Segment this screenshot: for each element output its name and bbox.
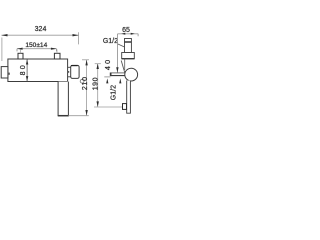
dimension 65 line: [118, 33, 139, 35]
front view: nub2 centerline: [56, 49, 58, 53]
front view: body bar: [8, 59, 68, 82]
small up arrow right: [119, 78, 121, 83]
front view: handle neck bottom line: [68, 76, 71, 78]
dimension 40 wall line with down arrow: [116, 34, 118, 73]
front view: right handle: [71, 65, 79, 78]
side view: neck diagonal: [121, 61, 125, 73]
dimension 150±14 line: [17, 48, 57, 50]
small up arrow left: [106, 78, 108, 83]
dimension 190 top extension: [95, 63, 101, 65]
svg-text:150±14: 150±14: [25, 42, 47, 49]
svg-text:G1/2: G1/2: [110, 85, 117, 100]
dimension 80 line with arrows: [26, 59, 28, 81]
side view: union pipe: [125, 39, 132, 53]
front view: union nub right: [54, 53, 60, 59]
dimension 65 end ticks: [137, 34, 139, 36]
dimension 324 line: [2, 34, 79, 36]
svg-text:40: 40: [103, 58, 112, 70]
side view: escutcheon bottom edge: [122, 58, 135, 60]
side view: escutcheon: [122, 53, 135, 59]
svg-text:190: 190: [92, 77, 99, 90]
side view: bottom outlet fitting: [123, 104, 127, 110]
dimension 324 arrows: [1, 34, 78, 36]
front view: down pipe bottom cap: [58, 115, 69, 117]
dimension 210 line: [86, 60, 88, 115]
side view: union collar line: [125, 41, 132, 43]
svg-text:210: 210: [82, 76, 89, 90]
dimension 190 bottom extension: [94, 106, 122, 108]
front view: handle neck top line: [68, 66, 71, 68]
front view: left temperature knob: [1, 67, 8, 78]
dimension 190 line: [97, 64, 99, 107]
dimension 210 bottom extension: [68, 115, 88, 117]
front view: handle joint tick: [68, 71, 70, 73]
front view: union nub left: [18, 53, 23, 59]
svg-text:324: 324: [35, 26, 47, 33]
dimension 324 extension line left: [1, 38, 3, 62]
label G1/2 top leader: [118, 44, 124, 47]
side view: handle end cap: [110, 73, 112, 77]
side view: body circle: [125, 68, 138, 81]
dimension 150±14 end ticks: [17, 49, 56, 52]
front view: knob joint tick: [8, 73, 10, 75]
side view: neck left edge: [124, 59, 126, 70]
side view: handle profile lines: [110, 72, 126, 74]
dimension 210 top extension: [82, 59, 89, 61]
svg-text:80: 80: [18, 63, 27, 75]
front view: small ellipse button: [80, 79, 84, 83]
front view: nub1 centerline: [19, 49, 21, 53]
side view: down pipe: [127, 81, 131, 114]
svg-text:65: 65: [122, 27, 130, 34]
svg-text:G1/2: G1/2: [103, 38, 118, 45]
front view: down pipe: [58, 82, 68, 116]
dimension 40 lower extension line: [104, 76, 110, 78]
front view: handle top dark edge: [71, 65, 78, 67]
dimension 324 extension line right: [78, 32, 80, 44]
dimension 150±14 arrows: [17, 48, 57, 50]
